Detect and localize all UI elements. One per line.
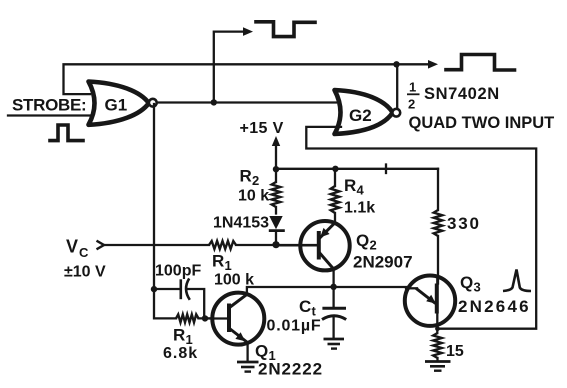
svg-text:330: 330 — [447, 214, 481, 233]
svg-text:C: C — [299, 297, 311, 316]
wire G1 output down to timing network — [153, 104, 155, 289]
label 10k — [238, 188, 269, 205]
resistor R1 100k — [209, 241, 318, 249]
label 1/2 fraction — [407, 80, 420, 112]
svg-text:2: 2 — [370, 238, 377, 253]
ground Q1 emitter — [237, 362, 259, 372]
node G1 output bubble — [149, 99, 157, 107]
ground Q3 base-1 — [425, 362, 451, 371]
svg-text:Q: Q — [460, 273, 473, 292]
node rail junction at R2 — [273, 166, 279, 172]
waveform STROBE input pulse — [50, 125, 83, 141]
transistor Q3 2N2646 unijunction — [405, 276, 455, 326]
wire Q1 emitter to ground — [246, 343, 248, 361]
node small tick on rail — [385, 165, 387, 174]
node junction base-1 / feedback line — [435, 326, 440, 331]
svg-text:2: 2 — [408, 97, 415, 112]
svg-text:R: R — [344, 176, 356, 195]
svg-text:Q: Q — [255, 342, 268, 361]
label 2N2222 — [258, 360, 323, 379]
wire G2 output vertical up to top line — [396, 64, 398, 108]
label 1N4153 — [213, 215, 269, 232]
svg-text:G1: G1 — [105, 96, 128, 115]
node rail junction at R4 — [332, 166, 338, 172]
wire G2 lower input feedback from Q3 base-1 — [306, 127, 536, 329]
svg-text:6.8k: 6.8k — [163, 345, 198, 362]
svg-text:1: 1 — [409, 80, 416, 95]
svg-text:R: R — [240, 167, 252, 186]
label 100k — [214, 272, 254, 289]
svg-text:Q: Q — [356, 231, 369, 250]
svg-text:V: V — [66, 237, 78, 257]
waveform output pulse (top right) — [446, 55, 515, 71]
label SN7402N — [424, 85, 500, 103]
wire G1 output to G2 upper input — [157, 101, 336, 103]
label R2 — [240, 167, 260, 189]
svg-text:R: R — [212, 252, 224, 271]
svg-text:4: 4 — [357, 183, 365, 198]
waveform trigger spike — [503, 270, 531, 292]
resistor R1 6.8k — [154, 289, 212, 322]
wire Q3 base-1 down — [436, 314, 438, 334]
ground Ct — [324, 339, 345, 349]
svg-text:1N4153: 1N4153 — [213, 215, 269, 232]
label 330 — [447, 214, 481, 233]
svg-text:15: 15 — [446, 343, 464, 360]
wire arrow pointing to inverted pulse waveform — [397, 60, 439, 69]
transistor Q1 2N2222 — [205, 293, 264, 345]
label Q1 — [255, 342, 276, 364]
label 6.8k — [163, 345, 198, 362]
svg-text:1.1k: 1.1k — [344, 200, 375, 217]
svg-text:t: t — [312, 304, 317, 319]
node junction diode cathode / R1 / Q2 base — [272, 241, 279, 248]
op-amp gate G1 NOR body — [89, 82, 149, 125]
svg-text:100pF: 100pF — [155, 263, 201, 280]
capacitor 100pF — [154, 278, 204, 318]
svg-text:2N2222: 2N2222 — [258, 360, 323, 379]
svg-text:0.01µF: 0.01µF — [267, 318, 322, 335]
resistor R2 10k — [272, 169, 281, 214]
label R1 — [212, 252, 232, 274]
svg-text:SN7402N: SN7402N — [424, 85, 500, 103]
label 100pF — [155, 263, 201, 280]
resistor 330 — [434, 169, 443, 284]
label QUAD TWO INPUT — [409, 114, 555, 132]
svg-text:2: 2 — [252, 173, 259, 188]
wire +15V supply arrow — [272, 136, 280, 170]
svg-text:QUAD TWO INPUT: QUAD TWO INPUT — [409, 114, 555, 132]
wire arrow from G1 output up to inverted-pulse pointer — [214, 27, 253, 102]
label 2N2907 — [353, 253, 413, 272]
wire Vc input arrow and line — [97, 241, 210, 250]
svg-text:2N2646: 2N2646 — [458, 297, 531, 316]
node junction on top line above G2 output — [393, 61, 399, 67]
svg-text:+15 V: +15 V — [240, 120, 284, 137]
waveform inverted pulse (top middle) — [256, 22, 315, 37]
wire top feedback line from G2 output to G1 upper input — [64, 64, 397, 94]
svg-text:10 k: 10 k — [238, 188, 269, 205]
wire Q3 base-2 up to 330 resistor — [436, 276, 438, 284]
svg-text:2N2907: 2N2907 — [353, 253, 413, 272]
label Q3 — [460, 273, 481, 295]
label Vc — [66, 237, 89, 261]
svg-text:±10 V: ±10 V — [64, 264, 106, 281]
resistor 15 — [433, 333, 442, 361]
op-amp gate G2 NOR body — [335, 90, 393, 134]
node junction on G1 output line — [211, 99, 217, 105]
STROBE label — [12, 95, 86, 114]
label plus/minus 10 V — [64, 264, 106, 281]
svg-text:C: C — [79, 245, 89, 260]
label R4 — [344, 176, 365, 198]
svg-text:STROBE:: STROBE: — [12, 95, 86, 114]
wire STROBE input line — [8, 114, 93, 116]
label 15 — [446, 343, 464, 360]
transistor Q2 2N2907 — [276, 221, 350, 270]
capacitor Ct — [322, 287, 346, 338]
label 1.1k — [344, 200, 375, 217]
diode D1 1N4153 — [269, 216, 285, 244]
svg-text:3: 3 — [474, 280, 481, 295]
node junction Q2 collector / Ct — [330, 284, 336, 290]
label Q2 — [356, 231, 377, 253]
svg-text:G2: G2 — [349, 106, 372, 125]
wire +15V rail — [276, 168, 438, 170]
label 0.01uF — [267, 318, 322, 335]
label +15 V — [240, 120, 284, 137]
resistor R4 1.1k — [331, 169, 340, 223]
wire Q2 collector down to pulse line — [332, 269, 334, 288]
node junction Q1 base — [202, 315, 208, 321]
label R1 — [173, 326, 193, 348]
label Ct — [299, 297, 317, 319]
svg-text:R: R — [173, 326, 185, 345]
wire Q1 collector to Q3 emitter line — [247, 287, 406, 295]
node G2 output bubble — [392, 109, 400, 117]
label 2N2646 — [458, 297, 531, 316]
node junction at capacitor branch — [151, 286, 157, 292]
